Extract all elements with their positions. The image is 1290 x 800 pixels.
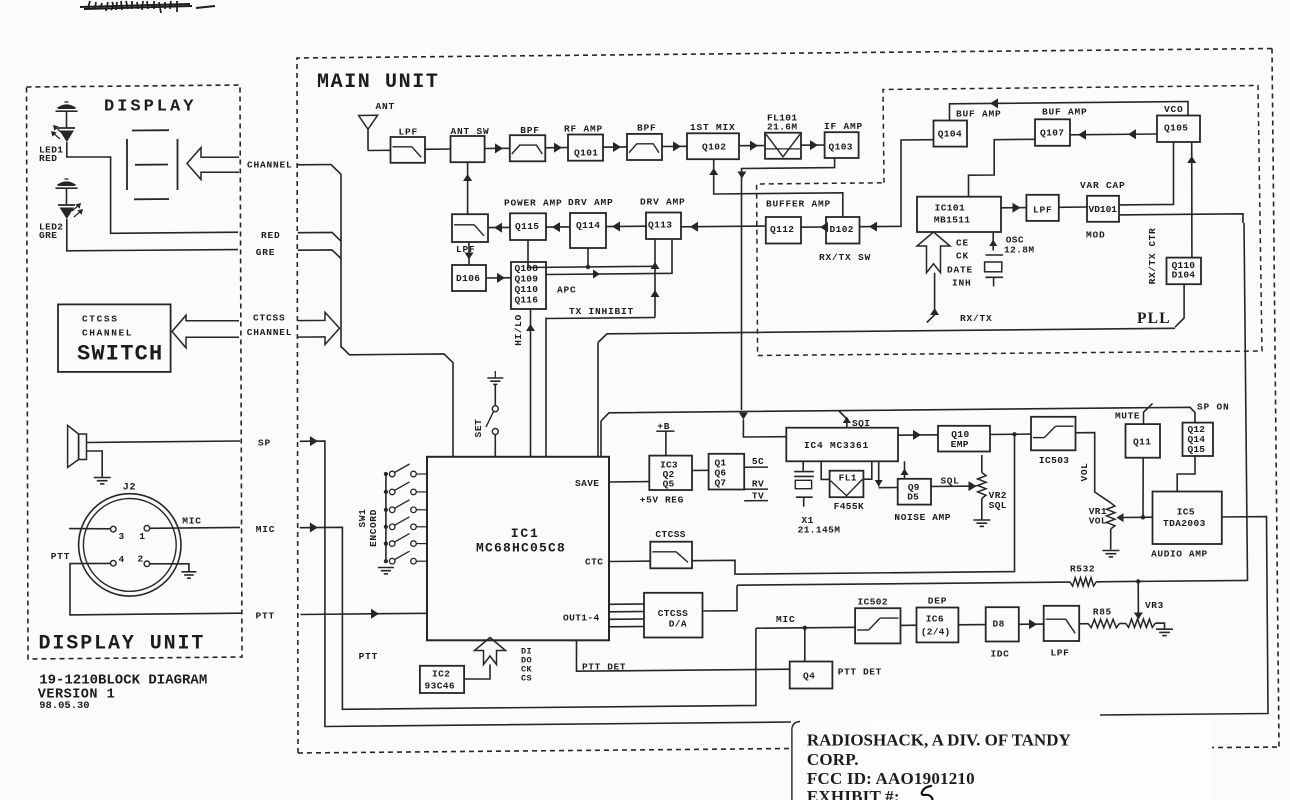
svg-text:CHANNEL: CHANNEL [247,327,293,338]
svg-text:D8: D8 [993,619,1005,630]
SP wire [87,441,241,443]
channel bus riser from display nets [298,165,453,457]
svg-text:IC503: IC503 [1039,455,1070,466]
svg-text:DRV AMP: DRV AMP [568,197,614,208]
CTCSS D/A [644,593,703,638]
svg-text:LPF: LPF [399,127,419,138]
svg-text:R85: R85 [1093,607,1112,618]
EEPROM IC2 93C46 [420,666,464,693]
svg-text:DATE: DATE [947,265,973,276]
VR3 branch from R532 rail [1137,581,1139,616]
svg-text:IC4 MC3361: IC4 MC3361 [804,440,869,451]
svg-text:21.145M: 21.145M [798,525,841,536]
svg-text:Q103: Q103 [829,142,853,153]
svg-text:Q108: Q108 [515,263,539,274]
svg-text:LPF: LPF [1051,648,1070,659]
svg-text:CTCSS: CTCSS [82,314,119,325]
wire BPF2 to 1ST MIX [662,145,687,147]
svg-text:EXHIBIT #:: EXHIBIT #: [807,787,900,800]
BUF AMP Q104 [934,121,968,147]
TX INHIBIT riser into Q113 [654,239,656,318]
noise amp input stub [878,461,880,486]
LED1 (red) indicator [65,101,69,103]
svg-text:2: 2 [138,554,144,565]
wire IC3 to Q1 [692,469,709,471]
pre-emphasis IC6 (2/4) [917,608,959,643]
svg-text:Q112: Q112 [770,224,794,235]
svg-text:VAR CAP: VAR CAP [1080,180,1126,191]
svg-text:R532: R532 [1070,564,1095,575]
svg-text:GRE: GRE [39,230,57,241]
svg-text:LPF: LPF [1033,204,1053,215]
wire IC101 to LPF [1001,207,1026,209]
svg-text:MIC: MIC [256,524,276,535]
svg-text:+B: +B [657,421,670,432]
RF AMP Q101 [568,135,603,161]
Q1 Q6 Q7 band switch [709,454,745,490]
serial control block arrow CE CK DATE INH [917,232,950,273]
svg-text:HI/LO: HI/LO [513,314,524,346]
SW1 ENCORD dip switches [385,474,387,562]
Q9 feedback stub to IC4 [904,461,906,479]
svg-text:SP ON: SP ON [1197,402,1230,413]
svg-text:+5V REG: +5V REG [640,494,684,505]
svg-text:D/A: D/A [669,619,687,630]
LED1 wire to RED net [67,142,238,233]
audio switch IC503 [1031,417,1076,451]
svg-text:BPF: BPF [637,123,657,134]
SP output wire along bottom [300,441,791,726]
IF output wire down to IC4 [742,158,835,410]
svg-text:98.05.30: 98.05.30 [39,700,89,712]
svg-text:INH: INH [952,278,972,289]
IC5 output loop to speaker rail [1100,517,1268,715]
IDC limiter D8 [986,607,1019,641]
PTT wire from pin4 [70,563,242,615]
TX injection wire D102 to 1ST MIX [714,159,843,217]
PLL loop LPF [1026,195,1058,221]
svg-text:3: 3 [119,531,125,542]
wire D106 to APC [486,277,511,279]
svg-text:PTT: PTT [256,611,276,622]
wire 1ST MIX to FL101 [739,145,765,147]
mute switch Q11 [1126,424,1161,458]
APC feedback riser into Q113 [546,239,672,275]
svg-text:Q115: Q115 [515,221,539,232]
svg-text:1: 1 [139,531,145,542]
svg-text:BPF: BPF [520,125,540,136]
CHANNEL hollow arrow into display [187,148,239,180]
DRV AMP Q114 [570,213,606,248]
wire Q104 down to D102 [860,140,934,227]
svg-text:RX/TX: RX/TX [960,313,993,324]
svg-text:(2/4): (2/4) [921,627,951,638]
wire VD101 to Q105 bottom [1119,142,1174,205]
svg-text:CHANNEL: CHANNEL [82,328,133,339]
svg-text:IF AMP: IF AMP [824,121,863,132]
SP ON switch bank Q12 Q14 Q15 [1183,423,1214,456]
svg-text:ANT SW: ANT SW [451,126,490,137]
wire Q114 to Q115 [546,226,570,228]
svg-text:Q116: Q116 [515,295,539,306]
MOD audio feed from R532 rail [1119,214,1243,223]
svg-text:IC502: IC502 [858,597,889,608]
svg-text:CE: CE [956,238,969,249]
svg-text:Q15: Q15 [1188,444,1206,455]
wire ANT SW to BPF [485,147,510,149]
antenna ANT [359,115,378,129]
squelch pot VR2 [981,455,983,473]
svg-text:IC5: IC5 [1177,507,1195,518]
ANT SW [451,136,485,162]
wire Q105 to Q107 [1070,133,1157,136]
svg-text:SP: SP [258,438,271,449]
svg-text:Q105: Q105 [1164,123,1188,134]
CTCSS CHANNEL SWITCH block [58,304,171,372]
wire LPF to ANT SW [425,148,451,150]
wire ant to LPF [368,149,391,151]
svg-text:Q104: Q104 [938,129,962,140]
svg-text:SAVE: SAVE [575,478,599,489]
BPF [510,135,546,161]
MIC input wire to bottom rail [300,527,756,709]
wire Q115 to LPF [488,226,510,228]
svg-text:12.8M: 12.8M [1004,245,1035,256]
svg-text:CS: CS [521,674,532,684]
svg-text:D106: D106 [456,273,480,284]
pin2 ground [150,564,189,571]
svg-text:DISPLAY: DISPLAY [104,98,196,117]
svg-text:IC2: IC2 [432,669,450,680]
svg-text:ENCORD: ENCORD [368,509,379,547]
wire LPF to D106 [468,242,470,265]
DRV AMP Q113 [646,213,681,240]
RX/TX CTR Q110 D104 [1167,258,1202,285]
VR1 wiper to IC5 [1123,516,1153,518]
+5V REG IC3 Q2 Q5 [649,456,692,490]
VR3 ground [1155,623,1164,628]
RED net merge [298,232,341,241]
svg-text:Q109: Q109 [515,274,539,285]
wire MIC node down to Q4 [804,628,806,662]
svg-text:MB1511: MB1511 [934,215,971,226]
IC4 MC3361 IF/detector [786,428,898,462]
speaker [68,425,79,467]
svg-text:SWITCH: SWITCH [77,342,163,367]
wire RX/TX line up to control arrow [927,273,935,323]
svg-text:CTC: CTC [585,557,603,568]
MUTE branch to Q11 [1144,404,1153,425]
svg-text:ANT: ANT [376,101,396,112]
svg-text:IDC: IDC [991,649,1010,660]
CTCSS CHANNEL block arrow into bus [298,312,340,344]
handwritten exhibit number 5 [917,786,933,800]
main unit bottom dashed edge [298,749,792,754]
mic mute switch IC502 [855,608,900,643]
svg-text:Q113: Q113 [648,220,672,231]
svg-text:POWER AMP: POWER AMP [504,198,563,209]
wire RF AMP to BPF2 [603,146,627,148]
svg-text:CTCSS: CTCSS [658,608,689,619]
svg-text:OUT1-4: OUT1-4 [563,613,600,624]
deviation pot VR3 [1126,619,1156,627]
svg-text:VOL: VOL [1079,463,1090,482]
svg-text:F455K: F455K [834,501,865,512]
wire Q107 to IC101 prescaler input [969,139,1036,196]
svg-text:RX/TX CTR: RX/TX CTR [1147,228,1158,285]
svg-text:Q7: Q7 [715,478,727,489]
svg-text:VCO: VCO [1164,104,1184,115]
SET switch to ground [487,377,503,379]
svg-text:TDA2003: TDA2003 [1163,518,1206,529]
7-segment channel display [126,139,128,190]
VAR CAP VD101 [1087,196,1119,222]
crossed-out handwritten note [80,4,215,9]
serial bus arrow DI DO CK CS [475,638,506,665]
OSC 12.8M crystal [992,232,994,251]
IC4 bypass capacitor and crystal X1 [802,461,804,470]
svg-text:TX INHIBIT: TX INHIBIT [569,306,634,317]
DISPLAY unit dashed enclosure [27,85,243,659]
PTT detect Q4 [790,662,833,689]
svg-text:NOISE AMP: NOISE AMP [894,512,951,523]
wire IC502 to IC6 [901,624,917,626]
LPF (TX low-pass) [452,214,488,242]
svg-text:PTT DET: PTT DET [838,667,882,678]
svg-text:DISPLAY UNIT: DISPLAY UNIT [39,633,206,656]
SQL wire to VR2 [931,485,977,487]
svg-text:MC68HC05C8: MC68HC05C8 [476,541,566,556]
svg-text:21.6M: 21.6M [767,122,798,133]
svg-text:DRV AMP: DRV AMP [640,197,686,208]
white exhibit label [792,718,1212,800]
svg-text:RADIOSHACK, A DIV. OF TANDY: RADIOSHACK, A DIV. OF TANDY [807,731,1071,750]
1ST MIX Q102 [687,133,739,159]
R85 [1088,619,1119,627]
svg-text:CORP.: CORP. [807,750,859,769]
wire BPF to RF AMP [545,147,568,149]
volume pot VR1 [1107,503,1115,529]
svg-text:MUTE: MUTE [1115,410,1140,421]
svg-text:BUF AMP: BUF AMP [1042,107,1088,118]
power control rail under PA [528,240,655,268]
IF AMP Q103 [825,132,859,158]
D106 [452,265,486,291]
svg-text:RED: RED [39,153,57,164]
VCO feedback wire Q105 to Q104 top [950,102,1189,121]
wire D8 to LPF [1019,623,1044,625]
D102 RX/TX switch [826,217,860,244]
hollow arrow into switch block [172,315,239,348]
wire Q105 bottom to RX/TX CTR [1191,142,1193,258]
svg-text:RED: RED [261,230,281,241]
BUF AMP Q107 [1035,119,1070,146]
svg-text:Q114: Q114 [576,220,600,231]
svg-text:CHANNEL: CHANNEL [247,160,293,171]
MIC junction to IC502 [756,626,855,629]
TX INHIBIT wire [545,318,547,457]
svg-text:MOD: MOD [1086,230,1106,241]
svg-text:D102: D102 [830,224,854,235]
POWER AMP Q115 [510,213,546,240]
wire IC6 to D8 [958,624,985,626]
svg-text:D5: D5 [907,492,919,503]
connector J2 [79,494,181,596]
PLL dashed enclosure [757,86,1262,356]
LED2 (green) indicator [65,178,69,180]
CTCSS tone switch IC [650,542,692,569]
wire D104 down to RX/TX line [1175,284,1184,327]
svg-text:BUF AMP: BUF AMP [956,109,1002,120]
D/A output to R532 rail [703,585,738,611]
IC101 MB1511 PLL synthesizer [917,197,1001,232]
APC block Q108 Q109 Q110 Q116 [511,262,546,309]
svg-text:PTT: PTT [51,551,71,562]
VCO Q105 [1157,116,1200,143]
svg-text:MAIN UNIT: MAIN UNIT [317,71,439,94]
svg-text:Q102: Q102 [702,142,726,153]
ceramic filter FL1 F455K [830,471,864,498]
svg-text:FCC ID: AAO1901210: FCC ID: AAO1901210 [807,769,975,788]
wire LPF to VD101 [1059,206,1087,208]
SP ON audio rail from IC1 [600,421,602,457]
CTC wire to tone switch [609,560,650,562]
svg-text:IC1: IC1 [511,526,540,541]
svg-text:PLL: PLL [1137,310,1171,327]
wire D102 to Q112 [801,226,826,228]
svg-text:IC6: IC6 [926,614,944,625]
MIC wires from pin1/pin3 [69,528,111,530]
SQI stub from IC4 [839,411,847,428]
svg-text:J2: J2 [123,483,137,494]
NOISE AMP Q9 D5 [898,479,931,505]
HI/LO wire down to IC1 [530,309,532,456]
svg-text:Q107: Q107 [1040,128,1064,139]
svg-text:FL1: FL1 [839,473,857,484]
ANT SW to TX low-pass wire [467,162,469,214]
svg-text:TV: TV [752,490,764,501]
svg-text:RV: RV [752,479,764,490]
svg-text:Q11: Q11 [1133,437,1151,448]
svg-text:VD101: VD101 [1089,204,1118,215]
PTT input wire to IC1 [301,613,428,614]
LPF (antenna low-pass filter) [391,137,426,163]
splatter filter LPF [1044,606,1080,641]
svg-text:CTCSS: CTCSS [253,312,286,323]
svg-text:MIC: MIC [776,614,796,625]
svg-text:BUFFER AMP: BUFFER AMP [766,199,831,210]
wire LPF to R85 [1079,623,1088,625]
wire FL101 to IF AMP [801,144,825,146]
svg-text:MIC: MIC [182,516,202,527]
svg-text:SQL: SQL [989,500,1007,511]
LED2 wire to GRE net [67,219,238,251]
svg-text:19-1210BLOCK DIAGRAM: 19-1210BLOCK DIAGRAM [39,673,207,689]
audio power amp IC5 TDA2003 [1153,492,1222,545]
svg-text:GRE: GRE [256,247,276,258]
IC1 MC68HC05C8 microcontroller [427,457,609,641]
svg-text:SW1: SW1 [357,509,368,528]
svg-text:APC: APC [557,285,577,296]
OUT1-4 bus to CTCSS D/A [609,603,644,605]
wire Q112 to Q113 [681,225,766,228]
Q12 block to IC5 supply pin [1177,456,1195,492]
5C RV TV outputs [744,466,768,468]
BPF 2 [627,134,662,160]
svg-text:D104: D104 [1172,270,1196,281]
wire Q10 to IC503 [990,433,1031,435]
svg-text:Q4: Q4 [803,671,815,682]
svg-text:CTCSS: CTCSS [655,529,686,540]
svg-text:PTT DET: PTT DET [582,662,626,673]
wire IC503 to VR1 volume [1076,433,1111,503]
svg-text:EMP: EMP [951,439,969,450]
de-emphasis Q10 EMP [938,426,990,452]
SAVE wire to +5V REG [609,481,649,483]
svg-text:DEP: DEP [928,596,948,607]
wire IC4 to Q10 [898,434,938,436]
svg-text:SQL: SQL [941,476,960,487]
svg-text:CK: CK [956,251,969,262]
PTT DET wire from IC1 [577,640,790,671]
svg-text:RX/TX SW: RX/TX SW [819,252,871,263]
svg-text:IC101: IC101 [935,203,966,214]
svg-text:4: 4 [119,554,125,565]
MAIN UNIT dashed enclosure [297,49,1272,754]
Q11 output to VR1 wiper node [1142,458,1144,518]
speaker ground [87,451,103,477]
svg-text:VR3: VR3 [1145,600,1164,611]
svg-text:AUDIO AMP: AUDIO AMP [1151,549,1208,560]
wire Q113 to Q114 [606,225,646,227]
svg-text:SET: SET [473,419,484,438]
RX/TX control line from IC1 [598,328,1175,342]
svg-text:5C: 5C [752,456,764,467]
svg-text:93C46: 93C46 [425,681,456,692]
FL101 21.6M crystal filter [765,133,801,159]
svg-text:VOL: VOL [1089,515,1107,526]
svg-text:Q5: Q5 [663,479,675,490]
FL1 stubs to IC4 [821,461,829,479]
svg-text:Q101: Q101 [574,147,598,158]
R532 feedback rail [737,582,1070,585]
GRE net merge [298,250,341,259]
CTC routing to audio mute rail [692,434,1015,574]
svg-text:RF AMP: RF AMP [564,123,603,134]
svg-text:1ST MIX: 1ST MIX [690,122,736,133]
BUFFER AMP Q112 [766,217,801,244]
svg-text:PTT: PTT [359,651,379,662]
svg-text:Q110: Q110 [515,284,539,295]
